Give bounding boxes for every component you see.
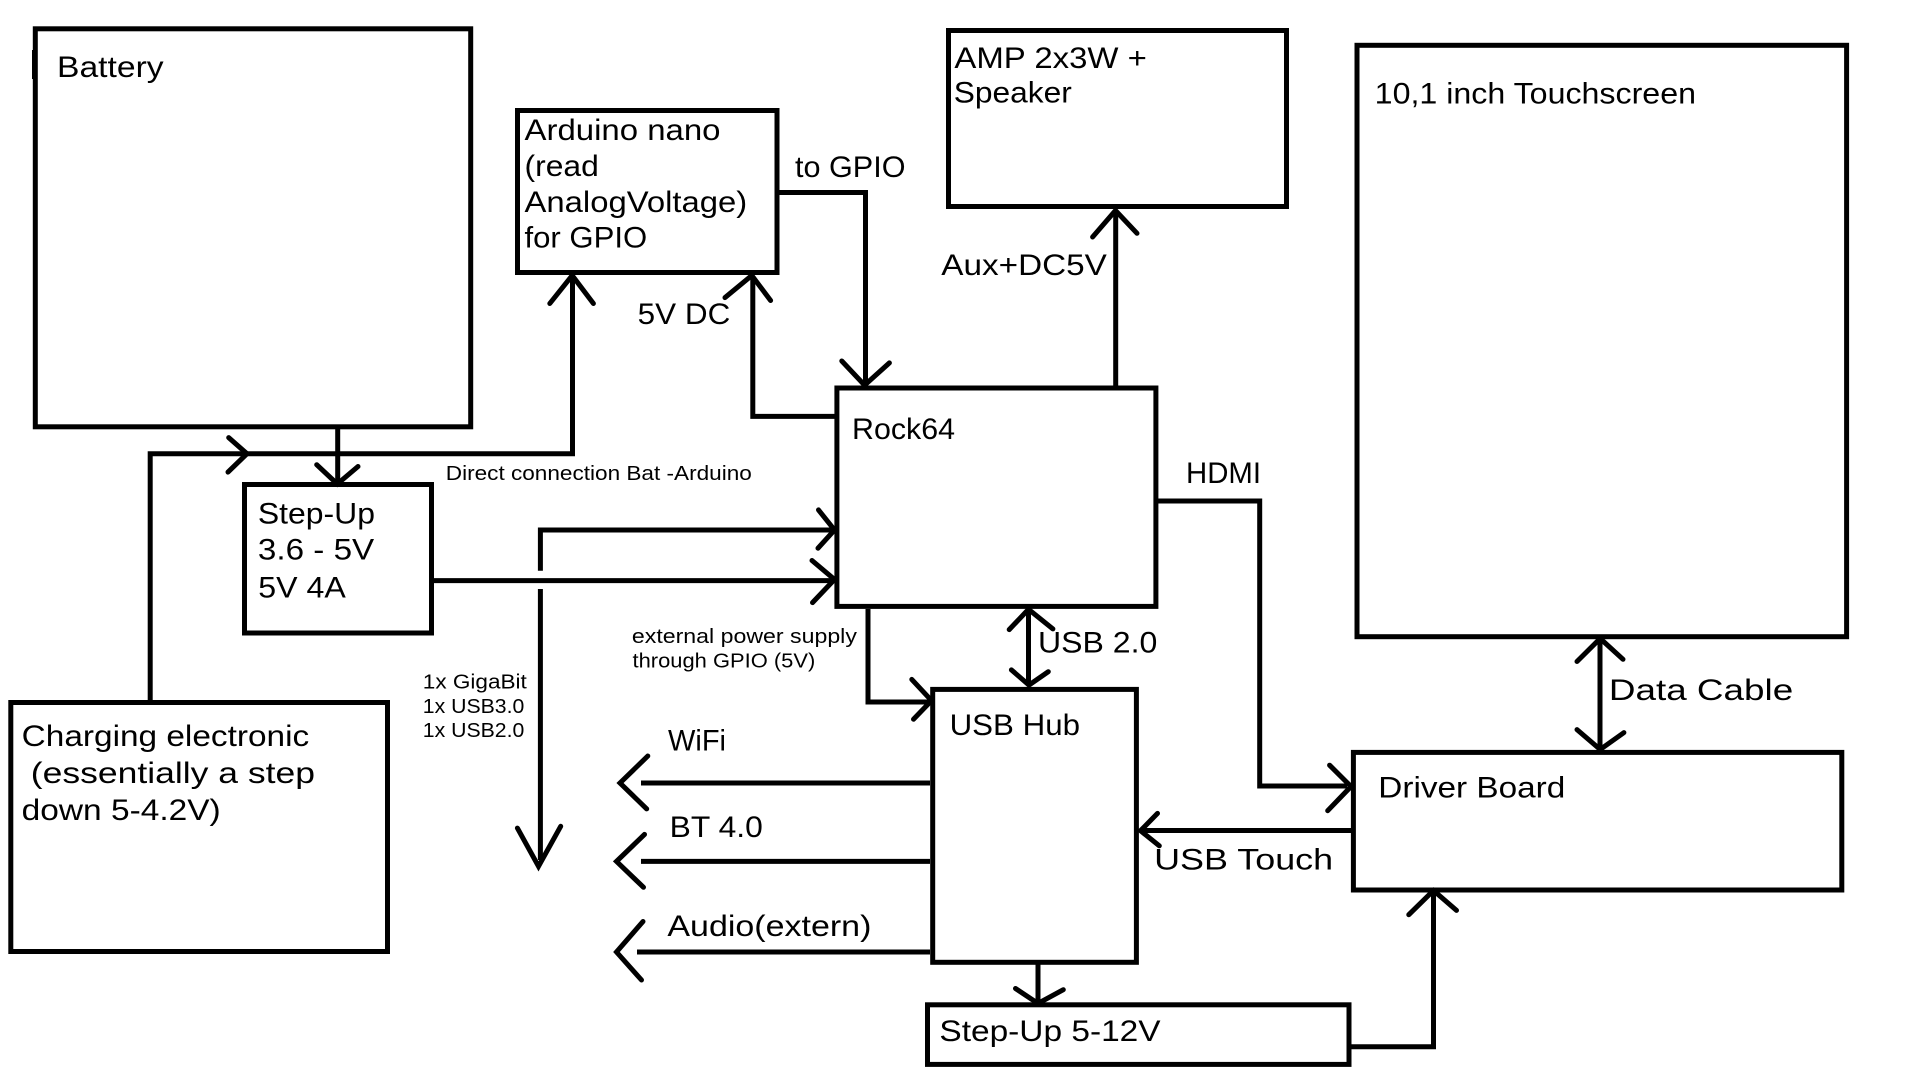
wire Audio from usb hub — [637, 950, 930, 955]
arrowhead into driver board bottom — [1409, 891, 1457, 915]
svg-text:Direct connection Bat -Arduino: Direct connection Bat -Arduino — [446, 462, 752, 485]
svg-text:1x USB2.0: 1x USB2.0 — [423, 719, 525, 742]
svg-text:Speaker: Speaker — [954, 77, 1072, 110]
arrowhead into arduino bottom (direct connection) — [550, 276, 594, 304]
svg-text:USB Hub: USB Hub — [950, 709, 1080, 742]
svg-text:1x USB3.0: 1x USB3.0 — [423, 695, 525, 718]
wire step-up 5-12V to driver board — [1349, 892, 1434, 1047]
wire external power rock64 to usb hub — [868, 609, 929, 702]
arrowhead into AMP bottom — [1093, 211, 1137, 238]
arrowhead BT pointing left — [617, 834, 645, 887]
svg-text:AnalogVoltage): AnalogVoltage) — [525, 186, 748, 219]
arrowhead into driver board left (HDMI) — [1328, 765, 1351, 811]
label Charging electronic — [22, 720, 315, 827]
svg-text:5V 4A: 5V 4A — [258, 572, 346, 605]
arrowhead into usb hub right (USB Touch) — [1141, 813, 1160, 845]
arrowhead dangling down — [517, 826, 560, 866]
block Driver Board — [1353, 752, 1841, 890]
svg-text:for GPIO: for GPIO — [525, 222, 648, 255]
arrowhead into rock64 left lower — [812, 561, 835, 603]
label AMP 2x3W + Speaker — [954, 42, 1147, 110]
svg-text:Aux+DC5V: Aux+DC5V — [941, 249, 1107, 282]
arrowhead up into touchscreen bottom — [1577, 639, 1623, 662]
wire battery bottom to step-up — [335, 428, 340, 481]
label Arduino nano — [525, 114, 748, 255]
svg-text:Step-Up: Step-Up — [258, 498, 375, 531]
arrowhead down into driver board top — [1577, 730, 1624, 750]
svg-text:BT 4.0: BT 4.0 — [670, 811, 763, 844]
arrowhead WiFi pointing left — [620, 756, 648, 809]
svg-text:HDMI: HDMI — [1186, 457, 1261, 490]
arrowhead into arduino bottom (5V DC) — [725, 276, 771, 301]
wire USB 2.0 rock64 to usb hub — [1026, 609, 1031, 685]
block Step-Up 3.6-5V — [245, 485, 432, 634]
block Battery — [34, 29, 471, 427]
wire Data Cable touchscreen to driver board — [1598, 640, 1603, 750]
svg-text:10,1 inch Touchscreen: 10,1 inch Touchscreen — [1375, 77, 1696, 110]
svg-text:Driver Board: Driver Board — [1378, 771, 1565, 804]
label 1x GigaBit 1x USB3.0 1x USB2.0 — [423, 671, 527, 743]
wire step-up to rock64 lower — [434, 578, 834, 583]
svg-text:Arduino nano: Arduino nano — [525, 114, 721, 147]
arrowhead down into usb hub top — [1011, 670, 1048, 685]
block 10,1 inch Touchscreen — [1357, 45, 1847, 636]
svg-text:USB 2.0: USB 2.0 — [1038, 627, 1157, 660]
svg-text:(read: (read — [525, 150, 599, 183]
wire 5V DC rock64 to arduino — [753, 276, 835, 416]
block Step-Up 5-12V — [928, 1005, 1350, 1065]
svg-text:5V DC: 5V DC — [638, 298, 731, 331]
arrowhead Audio pointing left — [617, 922, 644, 981]
svg-text:external power supply: external power supply — [632, 625, 858, 648]
arrowhead into rock64 left upper — [818, 510, 835, 548]
block USB Hub — [933, 689, 1137, 962]
arrowhead up into rock64 bottom — [1009, 609, 1053, 629]
arrowhead into step-up 5-12V top — [1016, 989, 1064, 1004]
wire charging electronic up and right to arduino riser — [150, 276, 572, 701]
wire usb hub to step-up 5-12V — [1036, 965, 1041, 1002]
svg-text:down 5-4.2V): down 5-4.2V) — [22, 794, 221, 827]
svg-text:Rock64: Rock64 — [852, 413, 955, 446]
wire BT 4.0 from usb hub — [641, 859, 930, 864]
svg-text:to GPIO: to GPIO — [795, 151, 906, 184]
wire WiFi from usb hub — [641, 781, 930, 786]
wire USB Touch driver board to usb hub — [1142, 828, 1353, 833]
svg-text:3.6 - 5V: 3.6 - 5V — [258, 534, 374, 567]
svg-text:Data Cable: Data Cable — [1609, 674, 1793, 707]
svg-text:USB Touch: USB Touch — [1154, 844, 1333, 877]
wire dangling gigabit/usb — [538, 589, 543, 860]
arrowhead mid-wire pointing right — [228, 438, 247, 473]
wire HDMI rock64 to driver board — [1156, 501, 1347, 786]
svg-text:Audio(extern): Audio(extern) — [667, 910, 871, 943]
wire Aux+DC5V rock64 to AMP — [1113, 212, 1118, 386]
block Charging electronic — [11, 703, 388, 952]
wire step-up to rock64 upper branch — [540, 530, 834, 571]
svg-text:1x GigaBit: 1x GigaBit — [423, 671, 527, 694]
arrowhead into rock64 top (to GPIO) — [842, 361, 890, 385]
block Arduino nano — [518, 111, 778, 273]
arrowhead into usb hub left (power) — [912, 679, 932, 719]
svg-text:through GPIO (5V): through GPIO (5V) — [633, 649, 816, 672]
block AMP 2x3W + Speaker — [949, 31, 1287, 207]
svg-text:Battery: Battery — [57, 51, 164, 84]
label external power supply through GPIO (5V) — [632, 625, 858, 672]
label Step-Up 3.6-5V 5V4A — [258, 498, 375, 605]
svg-text:Step-Up 5-12V: Step-Up 5-12V — [939, 1015, 1160, 1048]
svg-text:WiFi: WiFi — [668, 724, 726, 757]
wire to GPIO arduino to rock64 — [778, 193, 866, 385]
block Rock64 — [837, 388, 1156, 606]
svg-text:Charging electronic: Charging electronic — [22, 720, 310, 753]
arrowhead into step-up top — [317, 465, 358, 484]
svg-text:AMP 2x3W +: AMP 2x3W + — [954, 42, 1147, 75]
svg-text:(essentially a step: (essentially a step — [31, 757, 315, 790]
